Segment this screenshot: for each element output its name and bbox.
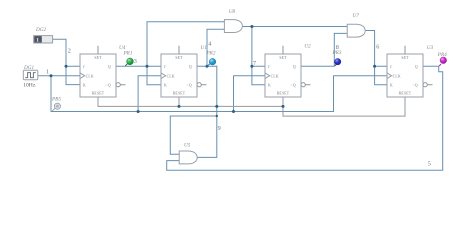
svg-text:7: 7 <box>253 60 256 67</box>
flip-flop U1 box <box>161 54 197 97</box>
AND gate U7 <box>347 24 365 37</box>
probe PB5 <box>51 96 61 111</box>
svg-text:U3: U3 <box>427 45 434 51</box>
svg-text:U4: U4 <box>119 44 126 51</box>
junction FF2 clock riser (net 1) <box>137 110 140 113</box>
svg-text:K: K <box>164 83 167 87</box>
svg-text:U8: U8 <box>229 9 236 15</box>
junction FF3 J/K tie (net 7) <box>250 65 253 68</box>
junction FF2 Q branch (net 4) <box>206 65 209 68</box>
digital clock DG1 <box>23 65 38 89</box>
svg-text:PB5: PB5 <box>51 96 61 102</box>
digital constant DG2 <box>34 27 53 43</box>
svg-text:10Hz: 10Hz <box>23 83 36 89</box>
svg-text:PR4: PR4 <box>437 51 447 58</box>
probe PR3 <box>332 50 342 66</box>
svg-text:RESET: RESET <box>92 92 105 96</box>
svg-text:RESET: RESET <box>173 92 186 96</box>
flip-flop U3 box <box>387 54 423 97</box>
svg-text:SET: SET <box>401 56 409 60</box>
~Q pin stubs <box>120 84 432 86</box>
wire clock bus net 1 <box>51 76 387 112</box>
wire DG2 to FF1 J/K (net 2) <box>53 39 80 84</box>
svg-text:PR1: PR1 <box>123 50 133 56</box>
junction FF1 Q branch (net 3) <box>146 65 149 68</box>
svg-text:U5: U5 <box>184 143 191 149</box>
svg-text:K: K <box>83 83 86 87</box>
probe PR2 <box>206 50 216 66</box>
wire FF3 Q to U7 in2 (net 8) <box>301 33 347 66</box>
svg-text:RESET: RESET <box>399 92 412 96</box>
~Q inversion bubbles <box>116 83 427 87</box>
junction clock tap (net 1) <box>50 74 53 77</box>
svg-text:CLK: CLK <box>271 74 279 78</box>
svg-text:PR2: PR2 <box>206 50 216 56</box>
junction U5 input link (net 9) <box>216 115 218 117</box>
probe PR4 <box>437 51 447 66</box>
wire net 9 vertical FF2.Q to U3 out <box>198 66 217 157</box>
AND gate U8 <box>224 20 242 33</box>
svg-text:1: 1 <box>46 68 49 75</box>
svg-text:3: 3 <box>134 58 137 65</box>
junction FF3 reset (net 9) <box>282 105 285 108</box>
probe PR1 <box>123 50 134 66</box>
junction net 9 on reset bus <box>215 105 218 108</box>
flip-flop U4 box <box>80 54 116 97</box>
flip-flop U2 box <box>265 54 301 97</box>
wire DG1 clock to FF1 CLK (net 1) <box>38 75 80 77</box>
svg-text:U7: U7 <box>353 13 360 19</box>
wire clock riser FF3 <box>234 76 266 112</box>
svg-text:SET: SET <box>94 56 102 60</box>
wire U7 out to FF4 J/K (net 6) <box>366 31 387 85</box>
svg-text:SET: SET <box>279 56 287 60</box>
junction FF2 reset (net 9) <box>178 105 181 108</box>
junction U8 output branch (net 7) <box>250 25 253 28</box>
svg-text:9: 9 <box>218 125 221 132</box>
junction FF1 J/K tie (net 2) <box>65 65 68 68</box>
svg-text:1: 1 <box>36 38 39 44</box>
svg-text:CLK: CLK <box>393 74 401 78</box>
svg-text:DG2: DG2 <box>35 27 46 33</box>
svg-text:U1: U1 <box>201 45 208 51</box>
svg-text:8: 8 <box>336 44 339 51</box>
wire reset bus gray (net 9 reset) <box>98 97 405 116</box>
svg-text:CLK: CLK <box>86 74 94 78</box>
svg-text:6: 6 <box>376 43 379 50</box>
AND gate U5 <box>179 151 197 164</box>
svg-text:5: 5 <box>428 160 431 167</box>
wire U3 in1 link <box>170 116 217 154</box>
wire U8 out to U7 in1 (net 7) <box>242 27 347 85</box>
wire FF2 Q to U8 in2 (net 4) <box>197 29 224 66</box>
svg-text:K: K <box>390 83 393 87</box>
svg-text:Q: Q <box>189 65 192 69</box>
wire FF4 Q loop to U3 in2 (net 5) <box>167 66 443 170</box>
svg-text:U2: U2 <box>304 43 311 49</box>
svg-text:CLK: CLK <box>167 74 175 78</box>
svg-text:Q: Q <box>108 65 111 69</box>
svg-text:Q: Q <box>293 65 296 69</box>
wire FF1 Q to U8 and FF2 J/K (net 3) <box>116 22 224 85</box>
svg-text:RESET: RESET <box>277 92 290 96</box>
svg-text:~Q: ~Q <box>187 83 192 87</box>
SET pin stubs U4 U1 U2 U3 <box>98 46 405 54</box>
svg-text:~Q: ~Q <box>291 83 296 87</box>
junction FF4 J/K tie (net 6) <box>373 65 376 68</box>
svg-text:~Q: ~Q <box>106 83 111 87</box>
junction FF3 clock riser (net 1) <box>232 110 235 113</box>
svg-text:K: K <box>268 83 271 87</box>
svg-text:Q: Q <box>415 65 418 69</box>
wire clock riser FF2 <box>138 76 161 112</box>
svg-text:SET: SET <box>175 56 183 60</box>
svg-text:~Q: ~Q <box>413 83 418 87</box>
svg-text:2: 2 <box>68 47 71 54</box>
svg-text:4: 4 <box>208 40 211 47</box>
